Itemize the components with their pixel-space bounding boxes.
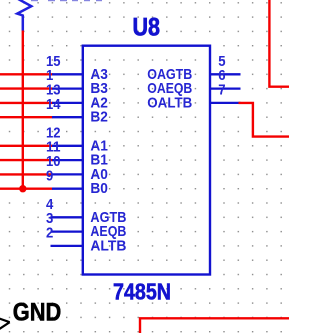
svg-text:7485N: 7485N — [113, 278, 171, 304]
svg-text:2: 2 — [46, 226, 53, 242]
wire to pin 1 (B3 net) — [0, 87, 53, 89]
wire to pin 9 (B0 net) — [0, 187, 53, 189]
resistor R1 value label (bottom sliver, cut off at top edge) — [31, 0, 102, 1]
wire to pin 10 (A0 net) — [0, 173, 53, 175]
wire from pin 7 (OALTB net) to lower right — [239, 103, 290, 137]
svg-text:B0: B0 — [90, 181, 108, 197]
pin stub 10 (A0) — [52, 173, 83, 175]
pin stub 7 (OALTB) — [210, 102, 241, 104]
svg-text:OALTB: OALTB — [147, 95, 192, 111]
pin stub 12 (A1) — [52, 145, 83, 147]
svg-text:B2: B2 — [90, 110, 108, 126]
pin stub 4 (AGTB) — [51, 216, 83, 218]
svg-text:7: 7 — [218, 83, 225, 99]
svg-text:14: 14 — [46, 97, 61, 113]
resistor R1 (zigzag body, cut off at top edge) — [17, 0, 31, 31]
pin stub 15 (A3) — [52, 73, 83, 75]
svg-text:9: 9 — [46, 168, 53, 184]
wire to pin 11 (B1 net) — [0, 159, 53, 161]
wire to pin 15 (A3 net) — [0, 73, 53, 75]
junction on B0 net — [19, 185, 26, 192]
comparator U1 body (7485N) — [83, 46, 210, 275]
pin stub 14 (B2) — [52, 116, 83, 118]
pin stub 9 (B0) — [52, 188, 83, 190]
pin stub 3 (AEQB) — [51, 230, 83, 232]
pin stub 5 (OAGTB) — [210, 73, 241, 75]
pin stub 1 (B3) — [52, 87, 83, 89]
pin stub 13 (A2) — [52, 102, 83, 104]
svg-text:ALTB: ALTB — [90, 238, 126, 254]
svg-text:GND: GND — [13, 299, 62, 327]
wire to pin 12 (A1 net) — [0, 145, 53, 147]
wire from resistor R1 down to B0 net junction — [22, 31, 24, 189]
ground symbol arrow (cut off at bottom left corner) — [0, 318, 10, 329]
pin stub 6 (OAEQB) — [210, 87, 241, 89]
wire to pin 14 (B2 net) — [0, 116, 53, 118]
svg-text:U8: U8 — [133, 14, 161, 42]
pin stub 2 (ALTB) — [51, 245, 83, 247]
pin stub 11 (B1) — [52, 159, 83, 161]
wire to pin 13 (A2 net) — [0, 102, 53, 104]
wire at top right (vertical drop then right, cut off) — [269, 0, 289, 87]
wire at bottom right (corner, cut off) — [140, 318, 289, 333]
